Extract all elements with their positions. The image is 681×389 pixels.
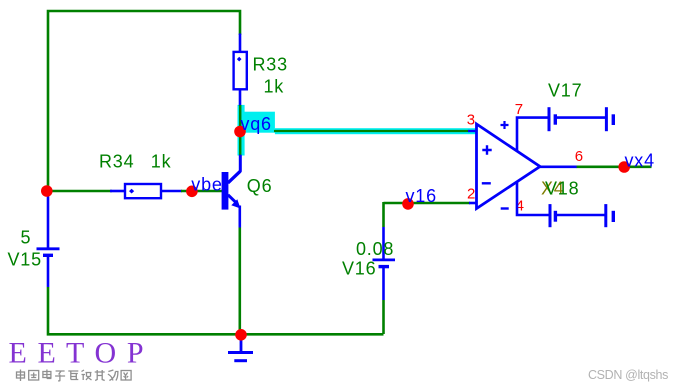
node ground junction dot <box>235 329 247 341</box>
wire: V16 top pin <box>382 202 385 259</box>
svg-text:V15: V15 <box>8 249 42 269</box>
svg-text:v16: v16 <box>406 186 437 206</box>
wire: op-amp pin 3 stub <box>468 130 478 132</box>
svg-text:1k: 1k <box>264 77 285 97</box>
svg-text:CSDN @ltqshs: CSDN @ltqshs <box>588 368 668 382</box>
node vbe junction dot <box>186 186 198 198</box>
label R33 value designator <box>253 54 288 96</box>
wire: left rail vertical V15 top pin <box>47 191 50 248</box>
ground symbol <box>228 335 253 361</box>
node label v16 <box>406 186 437 206</box>
wire: left rail horizontal to R34 <box>48 190 112 193</box>
wire: collector stub into Q6 <box>229 155 241 182</box>
svg-text:3: 3 <box>467 111 476 128</box>
CSDN watermark <box>588 368 668 382</box>
op-amp X4 <box>477 124 541 209</box>
wire: highlighted horizontal net vq6 to op-amp pin 3 <box>274 130 469 132</box>
resistor R33 <box>234 52 247 89</box>
svg-text:E E T O P: E E T O P <box>9 337 146 370</box>
svg-text:vbe: vbe <box>191 174 222 194</box>
voltage source V18 <box>550 204 613 227</box>
svg-text:R34: R34 <box>99 152 134 172</box>
svg-text:0.08: 0.08 <box>356 239 394 259</box>
wire: Q6 emitter down to ground rail <box>239 206 242 335</box>
node v16 junction dot <box>402 198 414 210</box>
wire: V15 bottom pin to bottom rail <box>48 257 384 334</box>
voltage source V17 <box>549 107 613 131</box>
label V18 designator <box>545 179 579 199</box>
wire: v16 rail from V16 to op-amp pin 2 <box>384 202 478 205</box>
svg-text:R33: R33 <box>253 54 288 74</box>
pin number 3 <box>467 111 476 128</box>
transistor Q6 <box>222 171 241 209</box>
label V15 value 5 <box>21 227 32 247</box>
node vx4 junction dot <box>618 161 630 173</box>
svg-text:1k: 1k <box>151 152 172 172</box>
svg-text:Q6: Q6 <box>247 176 273 196</box>
net highlight: cyan box behind vq6 label <box>238 112 275 133</box>
voltage source V15 <box>37 249 60 256</box>
pin number 7 <box>515 101 524 118</box>
label op-amp designator X4 <box>541 179 565 199</box>
node label vbe <box>191 174 222 194</box>
label Q6 designator <box>247 176 273 196</box>
label V15 designator <box>8 249 42 269</box>
wire: top rail from left rail to R33 <box>48 11 240 192</box>
plus marking at pin 7 <box>501 121 509 129</box>
svg-text:vx4: vx4 <box>625 151 655 171</box>
svg-text:vq6: vq6 <box>240 114 271 134</box>
svg-text:V16: V16 <box>342 259 376 279</box>
pin number 2 <box>467 186 476 203</box>
wire: op-amp pin 7 power stub <box>517 118 549 152</box>
net highlight: cyan band on wire vq6 to op-amp <box>275 128 477 134</box>
resistor R34 <box>125 184 161 198</box>
label V17 designator <box>548 81 582 101</box>
svg-text:V17: V17 <box>548 81 582 101</box>
label V16 value 0.08 <box>356 239 394 259</box>
minus marking at pin 4 <box>501 207 509 209</box>
label V16 designator <box>342 259 376 279</box>
svg-text:7: 7 <box>515 101 524 118</box>
wire: V16 bottom pin to bottom rail <box>382 268 385 334</box>
node label vq6 <box>240 114 271 134</box>
wire: R34 right pin <box>161 190 182 193</box>
label R34 designator and value <box>99 152 172 172</box>
wire: R33 bottom pin <box>239 89 242 107</box>
voltage source V16 <box>373 260 396 267</box>
EETOP logo Chinese subtitle (drawn glyph blocks) <box>17 370 132 382</box>
node vq6 junction dot <box>234 126 246 138</box>
pin number 4 <box>516 198 525 215</box>
wire: op-amp pin 4 power stub <box>517 182 550 216</box>
svg-text:5: 5 <box>21 227 32 247</box>
svg-text:6: 6 <box>575 148 584 165</box>
wire: op-amp output pin 6 <box>540 166 652 169</box>
net highlight: cyan strip on collector wire <box>238 105 245 156</box>
pin number 6 <box>575 148 584 165</box>
node label vx4 <box>625 151 655 171</box>
node left-rail junction dot <box>41 185 53 197</box>
svg-text:V18: V18 <box>545 179 579 199</box>
wire: R33 top pin <box>239 34 242 54</box>
wire: highlighted vertical net vq6 to collector <box>239 105 242 155</box>
EETOP logo text <box>9 337 146 370</box>
svg-text:2: 2 <box>467 186 476 203</box>
wire: net vbe segment to Q6 base <box>181 190 222 193</box>
wire: R34 left pin <box>110 190 125 193</box>
